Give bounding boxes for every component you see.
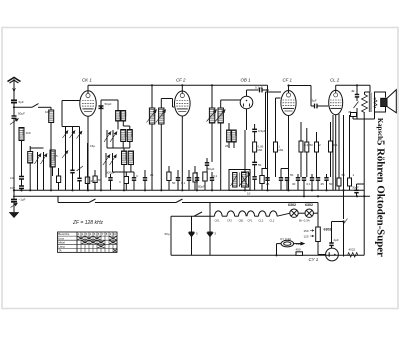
svg-text:250: 250 xyxy=(91,179,96,183)
svg-text:4022: 4022 xyxy=(349,248,356,252)
coil L8 1000 xyxy=(123,126,132,148)
labels small values xyxy=(10,86,359,252)
bus C w/ switches xyxy=(58,196,318,213)
svg-text:15µ: 15µ xyxy=(90,144,95,148)
resistor R8 xyxy=(203,172,207,190)
trimmer T7 xyxy=(107,130,130,148)
svg-text:30µF: 30µF xyxy=(352,186,359,190)
wire antenna down xyxy=(13,103,15,116)
resistor R16 xyxy=(337,178,341,190)
svg-text:CB1: CB1 xyxy=(239,219,245,223)
svg-text:100: 100 xyxy=(118,112,122,117)
resistor R10 xyxy=(274,142,278,177)
capacitor 1uF bottom xyxy=(11,200,18,208)
lamp 1 xyxy=(290,209,298,217)
wire mid bottom xyxy=(171,203,210,256)
svg-text:110: 110 xyxy=(296,242,301,246)
svg-text:50µF: 50µF xyxy=(208,167,215,171)
tube CY1 xyxy=(318,242,338,261)
svg-text:1000: 1000 xyxy=(152,109,156,116)
title rotated xyxy=(375,118,387,257)
capacitor C22 30uF xyxy=(354,184,364,196)
svg-text:Kapsch: Kapsch xyxy=(376,118,383,140)
capacitor C24 xyxy=(207,232,212,237)
capacitor C11 xyxy=(210,172,214,190)
capacitor C18 xyxy=(302,178,306,197)
svg-text:~1µF: ~1µF xyxy=(19,198,26,202)
ground xyxy=(10,202,19,218)
resistor R14 xyxy=(329,122,333,177)
capacitor 500uF xyxy=(108,174,112,190)
svg-text:0,1: 0,1 xyxy=(181,181,186,185)
resistor R6 xyxy=(167,166,171,190)
svg-text:CL2: CL2 xyxy=(259,219,264,223)
svg-text:0,1: 0,1 xyxy=(307,182,312,186)
resistor R13 xyxy=(315,132,319,177)
capacitor C20 xyxy=(316,178,320,191)
svg-text:0,1: 0,1 xyxy=(213,174,218,178)
capacitor C10 xyxy=(195,172,199,190)
svg-text:50µ: 50µ xyxy=(165,232,170,236)
capacitor C17 xyxy=(296,174,300,190)
speaker xyxy=(374,90,396,113)
coil L1 input xyxy=(49,107,54,190)
svg-text:10: 10 xyxy=(113,232,117,236)
svg-text:100: 100 xyxy=(124,112,128,117)
svg-text:5000: 5000 xyxy=(30,153,34,160)
wire band switch header xyxy=(62,127,80,191)
IF transformer 2 secondary xyxy=(215,100,241,190)
capacitor 0.1uF top xyxy=(260,85,269,190)
svg-text:125: 125 xyxy=(304,235,309,239)
svg-text:50: 50 xyxy=(342,173,346,177)
svg-text:TA: TA xyxy=(58,249,62,253)
resistor R3 xyxy=(85,143,89,190)
capacitor C16 xyxy=(285,178,289,191)
capacitor 0.5uF xyxy=(252,124,257,132)
resistor R7 xyxy=(193,166,197,190)
svg-text:3µF: 3µF xyxy=(312,99,317,103)
svg-text:6302: 6302 xyxy=(324,228,332,232)
svg-text:MΩ: MΩ xyxy=(279,148,284,152)
resistor R18 bottom xyxy=(171,252,364,256)
svg-text:50: 50 xyxy=(329,182,333,186)
capacitor C kw xyxy=(77,178,81,190)
svg-text:LW: LW xyxy=(10,176,14,180)
table X marks xyxy=(77,236,117,252)
capacitor 50 xyxy=(252,162,257,176)
coil L9 10000 xyxy=(122,148,127,190)
svg-text:1000: 1000 xyxy=(161,109,165,116)
resistor R15 top right xyxy=(351,113,357,120)
svg-text:1000: 1000 xyxy=(123,131,127,138)
wire jog xyxy=(262,169,289,175)
capacitor C lw xyxy=(70,170,74,190)
coil L2 5000 xyxy=(19,128,24,177)
svg-text:CK 1: CK 1 xyxy=(82,78,92,83)
wire CF1 plate to CL2 xyxy=(289,86,315,107)
svg-text:25: 25 xyxy=(150,173,154,177)
trimmer T5b xyxy=(62,151,68,159)
labels 6302 bold xyxy=(288,203,332,232)
coil value labels rotated xyxy=(22,109,238,161)
wire top bus xyxy=(88,84,268,86)
trimmer T8 xyxy=(103,153,110,178)
IF transformer 1 secondary xyxy=(156,99,173,191)
svg-text:0,5µF: 0,5µF xyxy=(258,129,266,133)
svg-text:1000: 1000 xyxy=(221,109,225,116)
capacitor 50uF xyxy=(10,116,19,125)
trimmer T1 xyxy=(35,152,42,165)
tube CL2 xyxy=(329,85,343,190)
coil L11 diode xyxy=(227,123,237,148)
svg-text:50µF: 50µF xyxy=(105,102,112,106)
svg-text:CK1: CK1 xyxy=(215,219,221,223)
svg-text:5µF: 5µF xyxy=(19,100,24,104)
trimmer T4 xyxy=(70,131,76,139)
capacitor KW xyxy=(19,179,24,190)
resistor R17 xyxy=(348,178,352,190)
svg-text:4µF: 4µF xyxy=(334,238,339,242)
capacitor C15 xyxy=(279,174,283,190)
svg-text:50µF: 50µF xyxy=(198,185,205,189)
svg-text:JE: JE xyxy=(351,89,355,93)
lamp 2 xyxy=(298,209,318,227)
svg-text:0,1: 0,1 xyxy=(334,143,339,147)
svg-text:0,3: 0,3 xyxy=(304,143,309,147)
svg-text:400: 400 xyxy=(296,248,301,252)
switch Js xyxy=(342,190,347,256)
interstage transformer box xyxy=(229,170,250,191)
svg-text:25: 25 xyxy=(266,182,270,186)
svg-text:MΩ: MΩ xyxy=(258,148,263,152)
antenna xyxy=(8,78,21,101)
capacitor C19 xyxy=(310,174,314,190)
capacitor C12 xyxy=(252,177,256,191)
wire switch line xyxy=(14,104,51,108)
capacitor C25 xyxy=(329,222,343,249)
svg-text:OB 1: OB 1 xyxy=(241,78,252,83)
wires right columns xyxy=(333,114,350,190)
svg-text:100: 100 xyxy=(45,110,50,114)
capacitor C8 xyxy=(187,170,191,190)
tube CF2 xyxy=(173,85,191,190)
resistor R19 zigzag xyxy=(348,253,359,258)
svg-text:UY 0,3A: UY 0,3A xyxy=(280,237,291,241)
coil L5 100 xyxy=(116,100,121,121)
svg-text:10000: 10000 xyxy=(53,152,57,161)
wire speaker bottom xyxy=(353,112,375,255)
svg-text:500: 500 xyxy=(234,131,238,136)
trimmer T5 xyxy=(77,131,83,139)
voltage selector xyxy=(310,227,320,242)
wire antenna to ground bus xyxy=(13,118,15,199)
switch band xyxy=(77,166,84,171)
coil L4 10000 xyxy=(50,150,55,176)
wire grid to CK1 xyxy=(62,101,80,127)
svg-text:150: 150 xyxy=(304,229,309,233)
svg-text:5 Röhren Oktoden-Super: 5 Röhren Oktoden-Super xyxy=(375,140,387,257)
svg-text:B+ 0,3A: B+ 0,3A xyxy=(299,219,310,223)
output transformer xyxy=(362,85,372,119)
tube CK1 xyxy=(80,85,96,190)
svg-text:10000: 10000 xyxy=(124,152,128,161)
svg-text:CL 2: CL 2 xyxy=(330,78,340,83)
svg-text:10: 10 xyxy=(247,192,251,196)
capacitor C21 xyxy=(324,174,328,190)
capacitor C5 xyxy=(113,172,137,190)
resistor R12 xyxy=(305,128,309,177)
svg-text:30: 30 xyxy=(292,182,296,186)
svg-text:CY 1: CY 1 xyxy=(309,257,319,262)
svg-text:35: 35 xyxy=(348,110,352,114)
resistor R5 xyxy=(124,172,128,190)
svg-text:ZF = 128 kHz: ZF = 128 kHz xyxy=(72,220,104,226)
trimmer T3 xyxy=(63,131,69,139)
svg-text:KW: KW xyxy=(10,186,15,190)
svg-text:50: 50 xyxy=(98,178,102,182)
svg-text:CF1: CF1 xyxy=(248,219,253,223)
heater chain xyxy=(171,211,290,216)
capacitor C14 xyxy=(265,178,269,180)
capacitor C13 xyxy=(260,168,264,190)
svg-text:25: 25 xyxy=(321,182,325,186)
capacitor C7 xyxy=(176,170,180,190)
svg-text:50: 50 xyxy=(258,163,262,167)
capacitor 3uF coupling xyxy=(315,104,329,109)
svg-text:50: 50 xyxy=(290,173,294,177)
trimmer T2 xyxy=(30,148,47,190)
IF transformer 2 primary xyxy=(207,85,217,162)
capacitor antenna series xyxy=(11,100,17,102)
coil L10 10000 xyxy=(128,151,133,172)
resistor R4 xyxy=(93,170,97,190)
svg-text:6302: 6302 xyxy=(288,203,296,207)
fuse UY 0,3A xyxy=(275,240,304,256)
svg-text:25: 25 xyxy=(225,144,229,148)
junction dots bus xyxy=(13,84,366,197)
resistor R9 xyxy=(253,132,257,162)
bus A xyxy=(13,189,364,191)
svg-text:500µF: 500µF xyxy=(106,171,115,175)
capacitor tone xyxy=(355,95,359,102)
capacitor LW xyxy=(19,177,24,180)
trimmer T6 xyxy=(104,130,111,143)
wires CF1 left column xyxy=(266,92,282,168)
wire CL2 plate top right xyxy=(336,84,370,94)
svg-text:5000: 5000 xyxy=(22,129,26,136)
capacitor C23 xyxy=(189,232,194,237)
resistor R1 xyxy=(57,168,61,190)
svg-text:6302: 6302 xyxy=(305,203,313,207)
switch tone xyxy=(354,102,359,120)
coil L7 1000 xyxy=(121,130,126,142)
labels tubes xyxy=(82,78,340,263)
svg-text:CF 2: CF 2 xyxy=(176,78,186,83)
svg-text:1000: 1000 xyxy=(130,131,134,138)
heater labels xyxy=(215,219,275,223)
table xyxy=(58,232,118,252)
svg-text:0,1µF: 0,1µF xyxy=(255,86,263,90)
svg-text:500: 500 xyxy=(229,131,233,136)
svg-text:50µF: 50µF xyxy=(18,112,25,116)
tube CF1 xyxy=(281,86,296,191)
coil L3 xyxy=(28,146,33,190)
capacitor 50uF osc xyxy=(99,100,119,190)
svg-text:10000: 10000 xyxy=(131,152,135,161)
IF transformer 1 primary xyxy=(147,85,157,190)
resistor R11 xyxy=(299,122,303,177)
svg-text:CF2: CF2 xyxy=(227,219,232,223)
ZF text xyxy=(72,220,104,226)
svg-text:CF 1: CF 1 xyxy=(283,78,293,83)
svg-text:50: 50 xyxy=(310,143,314,147)
bus B xyxy=(13,195,370,197)
svg-text:CL2: CL2 xyxy=(270,219,275,223)
trimmer T9 xyxy=(110,153,117,172)
tube OB1 diode xyxy=(240,90,258,130)
volume pot xyxy=(239,130,251,190)
svg-text:50: 50 xyxy=(172,181,176,185)
capacitor C6 xyxy=(143,170,147,190)
svg-text:1000: 1000 xyxy=(212,109,216,116)
capacitor C9 50uF xyxy=(205,158,209,172)
table texts xyxy=(58,232,116,252)
coil L6 100 xyxy=(118,111,126,130)
